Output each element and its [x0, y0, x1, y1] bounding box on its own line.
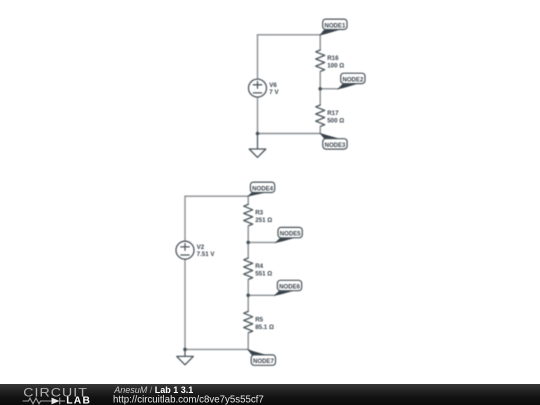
- wire NODE2 tap: [320, 88, 338, 90]
- wire bottom circuit left vertical upper: [184, 196, 186, 241]
- wire top chain above R16: [319, 35, 321, 50]
- svg-text:NODE1: NODE1: [324, 23, 345, 29]
- svg-text:R16: R16: [327, 55, 339, 62]
- svg-text:500 Ω: 500 Ω: [327, 118, 344, 125]
- flag NODE5: [275, 227, 303, 243]
- svg-text:NODE2: NODE2: [342, 77, 363, 83]
- wire bottom circuit top horizontal: [185, 195, 248, 197]
- ground top circuit: [249, 134, 266, 158]
- svg-text:R3: R3: [255, 210, 263, 217]
- wire between R16 and R17: [319, 72, 321, 106]
- wire below R5: [247, 333, 249, 350]
- wire below R17: [319, 127, 321, 134]
- node dot bottom circuit ground junction: [183, 348, 187, 352]
- resistor R3: [244, 204, 253, 226]
- resistor R16: [316, 50, 325, 72]
- node dot NODE6 junction: [246, 294, 250, 298]
- resistor R4: [244, 258, 253, 280]
- svg-text:R17: R17: [327, 110, 339, 117]
- flag NODE7: [247, 349, 276, 366]
- resistor R17: [316, 105, 325, 127]
- svg-text:http://circuitlab.com/c8ve7y5s: http://circuitlab.com/c8ve7y5s55cf7: [113, 395, 264, 405]
- svg-text:85.1 Ω: 85.1 Ω: [255, 324, 274, 331]
- wire bottom circuit left vertical lower: [184, 259, 186, 349]
- wire between R3 and R4: [247, 226, 249, 258]
- wire top circuit top horizontal: [258, 34, 321, 36]
- svg-text:7 V: 7 V: [269, 89, 279, 96]
- wire top circuit bottom horizontal: [258, 133, 321, 135]
- flag NODE6: [274, 280, 302, 296]
- flag NODE1: [319, 19, 347, 35]
- svg-text:251 Ω: 251 Ω: [255, 217, 272, 224]
- svg-text:NODE4: NODE4: [252, 186, 273, 192]
- flag NODE2: [337, 73, 365, 89]
- svg-text:NODE5: NODE5: [280, 232, 301, 238]
- svg-text:AnesuM / Lab 1 3.1: AnesuM / Lab 1 3.1: [113, 385, 193, 395]
- svg-text:NODE6: NODE6: [279, 285, 300, 291]
- svg-text:NODE3: NODE3: [325, 143, 346, 149]
- logo zigzag and diode: [23, 398, 65, 405]
- svg-text:551 Ω: 551 Ω: [255, 271, 272, 278]
- node dot NODE2 junction: [318, 87, 322, 91]
- node dot NODE5 junction: [246, 241, 250, 245]
- resistor R5: [244, 311, 253, 333]
- node dot top circuit ground junction: [256, 132, 260, 136]
- wire top circuit left vertical upper: [257, 35, 259, 79]
- svg-text:R5: R5: [255, 317, 263, 324]
- ground bottom circuit: [177, 349, 194, 364]
- flag NODE3: [319, 133, 347, 149]
- svg-text:NODE7: NODE7: [253, 359, 274, 365]
- svg-text:R4: R4: [255, 263, 263, 270]
- wire NODE6 tap: [248, 294, 275, 296]
- flag NODE4: [247, 182, 275, 197]
- svg-text:7.51 V: 7.51 V: [197, 251, 216, 258]
- svg-text:LAB: LAB: [66, 395, 91, 405]
- wire NODE5 tap: [248, 241, 276, 243]
- wire bottom circuit bottom horizontal: [185, 348, 248, 350]
- wire between R4 and R5: [247, 280, 249, 312]
- voltage source V6: [249, 79, 267, 97]
- voltage source V2: [176, 241, 194, 259]
- svg-text:100 Ω: 100 Ω: [327, 63, 344, 70]
- wire top circuit left vertical lower: [257, 97, 259, 133]
- wire above R3: [247, 196, 249, 204]
